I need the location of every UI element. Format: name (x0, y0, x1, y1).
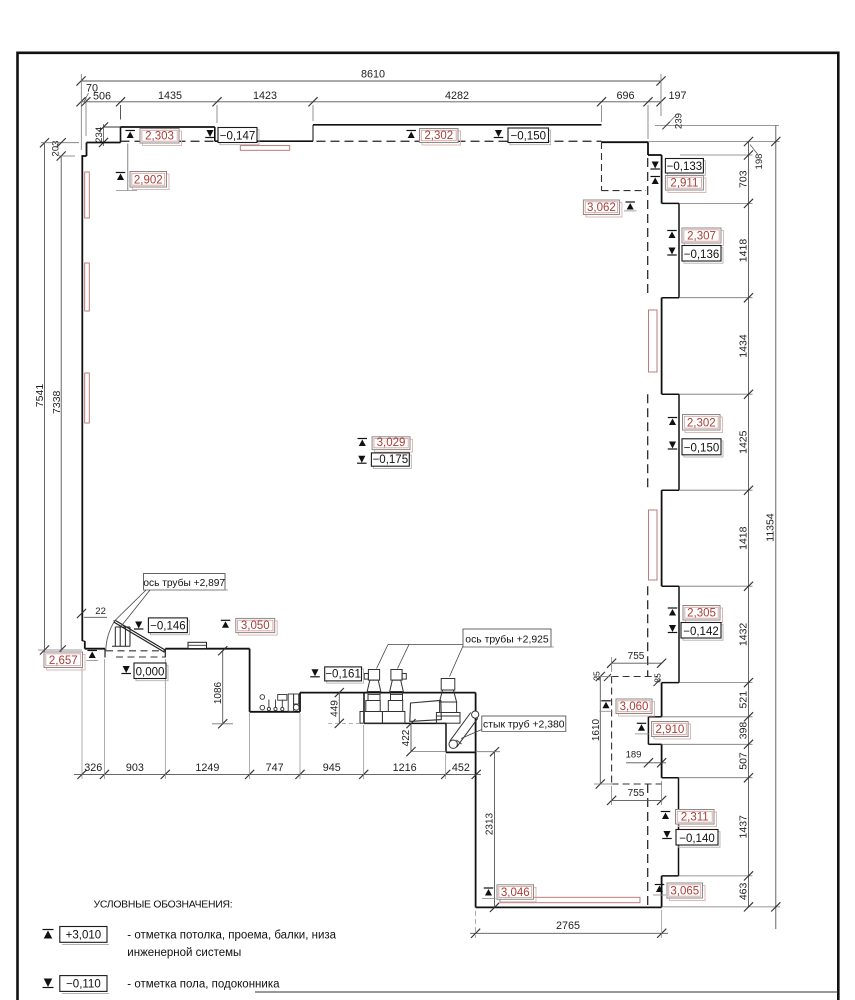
wall step down at x250 (249, 649, 251, 712)
svg-text:1432: 1432 (737, 623, 749, 647)
elevation mark 2,911 (650, 176, 660, 178)
svg-text:1216: 1216 (393, 762, 417, 774)
platform step at x446 (445, 723, 447, 752)
svg-text:197: 197 (668, 90, 686, 102)
label leader ось трубы +2,925 (388, 644, 463, 646)
wall shelf y712 (250, 711, 300, 713)
radiator left wall 3 (85, 373, 90, 423)
dimension 7338 vertical line (60, 156, 62, 653)
svg-text:7338: 7338 (51, 390, 63, 414)
svg-text:−0,110: −0,110 (66, 979, 101, 991)
elevation mark 2,302 top (406, 130, 416, 132)
svg-text:945: 945 (323, 762, 341, 774)
elevation mark -0,175 center (358, 456, 365, 463)
svg-text:УСЛОВНЫЕ ОБОЗНАЧЕНИЯ:: УСЛОВНЫЕ ОБОЗНАЧЕНИЯ: (94, 900, 233, 911)
fixture lollipop valves (268, 700, 270, 708)
svg-text:506: 506 (93, 91, 111, 103)
svg-text:0,000: 0,000 (136, 666, 165, 678)
left wall bottom step (82, 640, 85, 642)
bay left wall (475, 693, 477, 908)
svg-text:755: 755 (628, 788, 645, 799)
dimension 22 tick and text (77, 609, 86, 618)
elevation mark 3,029 center (358, 438, 368, 440)
svg-text:−0,142: −0,142 (683, 626, 719, 638)
window R2 bottom jamb (662, 489, 679, 491)
door opening dashed inner (116, 656, 165, 658)
dimension 755 top (612, 662, 662, 664)
svg-text:инженерной системы: инженерной системы (127, 947, 241, 959)
svg-text:1437: 1437 (737, 815, 749, 839)
svg-text:521: 521 (737, 691, 749, 709)
elevation mark -0,161 (311, 669, 318, 676)
elevation mark -0,133 (652, 162, 659, 169)
dimension 2313 (494, 751, 496, 908)
svg-text:ось трубы +2,897: ось трубы +2,897 (143, 577, 225, 589)
label box ось трубы +2,897 (144, 574, 226, 591)
elevation mark -0,147 (206, 130, 213, 137)
bottom dimension chain line (74, 773, 481, 775)
radiator right wall lower (649, 510, 658, 580)
svg-text:2765: 2765 (556, 920, 580, 932)
svg-text:463: 463 (737, 882, 749, 900)
elevation mark 2,902 (127, 144, 129, 191)
svg-text:−0,146: −0,146 (150, 620, 186, 632)
svg-text:2,302: 2,302 (687, 418, 716, 430)
svg-text:507: 507 (737, 752, 749, 770)
svg-text:2,305: 2,305 (687, 608, 716, 620)
svg-text:422: 422 (401, 729, 412, 746)
dimension 1610 (599, 677, 601, 785)
elevation mark 3,065 (655, 884, 665, 886)
radiator left wall 2 (85, 263, 90, 311)
right wall segment 1418b (661, 490, 663, 586)
bottom chain extension lines (81, 652, 83, 779)
svg-text:4282: 4282 (445, 90, 469, 102)
svg-text:стык труб +2,380: стык труб +2,380 (483, 719, 565, 731)
elevation mark -0,136 (668, 248, 675, 255)
window R1 top jamb (662, 202, 679, 204)
svg-text:755: 755 (628, 651, 645, 662)
elevation mark 3,062 (586, 203, 622, 218)
elevation mark 2,302 right (668, 417, 678, 419)
elevation mark 3,050 (221, 619, 231, 621)
door swing arc (106, 621, 115, 651)
svg-text:1434: 1434 (737, 334, 749, 358)
legend floor mark symbol (44, 979, 53, 988)
svg-text:−0,150: −0,150 (684, 443, 720, 455)
svg-text:1249: 1249 (195, 762, 219, 774)
wall segment 1423 face (215, 140, 313, 142)
bottom wall right of door (165, 648, 249, 650)
window W1 left jamb (120, 127, 122, 143)
label box стык труб +2,380 (461, 730, 482, 739)
window R2 outer face (678, 394, 680, 490)
svg-text:+3,010: +3,010 (66, 930, 102, 942)
niche 398 bottom jamb (648, 743, 661, 745)
right wall segment 507 (661, 744, 663, 777)
window R1 outer face (678, 203, 680, 297)
radiator under top wall (240, 146, 289, 151)
svg-text:903: 903 (126, 762, 144, 774)
window R2 top jamb (662, 393, 679, 395)
svg-text:85: 85 (653, 673, 663, 683)
svg-text:2,657: 2,657 (49, 655, 78, 667)
right wall axis dashed (647, 158, 649, 298)
legend ceiling mark symbol (43, 929, 54, 931)
dashed inner corner top-right (601, 142, 603, 191)
svg-text:449: 449 (329, 700, 340, 717)
pipe riser 1 (368, 670, 379, 681)
svg-text:1423: 1423 (253, 90, 277, 102)
wall top-left niche thin line (104, 126, 121, 128)
elevation mark 2,311 (661, 811, 671, 813)
label box ось трубы +2,925 (463, 629, 551, 647)
svg-text:2,307: 2,307 (687, 231, 716, 243)
svg-text:1435: 1435 (158, 90, 182, 102)
svg-text:2,910: 2,910 (655, 724, 684, 736)
radiator bay bottom (500, 897, 640, 902)
platform line y752 (446, 751, 476, 753)
svg-text:7541: 7541 (34, 384, 46, 408)
svg-text:−0,147: −0,147 (220, 130, 256, 142)
svg-text:3,065: 3,065 (670, 886, 699, 898)
svg-text:3,029: 3,029 (377, 437, 406, 449)
elevation mark -0,140 (663, 831, 670, 838)
wall segment 696 (602, 141, 649, 143)
svg-text:3,046: 3,046 (501, 887, 530, 899)
window R1 bottom jamb (662, 297, 679, 299)
svg-text:- отметка пола, подоконника: - отметка пола, подоконника (127, 979, 280, 991)
svg-text:2,303: 2,303 (145, 131, 174, 143)
entrance steps (115, 626, 130, 628)
svg-text:696: 696 (616, 90, 634, 102)
elevation mark 2,305 (668, 607, 678, 609)
elevation mark 2,910 (637, 722, 647, 724)
svg-text:−0,136: −0,136 (684, 249, 720, 261)
svg-text:1418: 1418 (737, 526, 749, 550)
bay bottom wall (476, 906, 662, 908)
right wall segment 1434 (661, 298, 663, 395)
door opening dashed outer (106, 650, 165, 652)
window R3 top jamb (662, 585, 679, 587)
top-right corner step (647, 142, 649, 155)
niche 398 top jamb (648, 716, 661, 718)
dimension 1086 (222, 651, 224, 724)
legend box +3,010 (60, 927, 107, 943)
svg-text:3,060: 3,060 (620, 701, 649, 713)
svg-text:−0,140: −0,140 (679, 833, 715, 845)
dimension overall 8610 line (81, 80, 661, 82)
elevation mark 2,303 (125, 130, 135, 132)
svg-text:−0,161: −0,161 (325, 669, 361, 681)
svg-text:ось трубы +2,925: ось трубы +2,925 (465, 633, 549, 645)
svg-text:−0,133: −0,133 (667, 161, 703, 173)
dashed projection box bay (611, 677, 613, 785)
pipe riser 2 (391, 670, 402, 681)
radiator left wall 1 (85, 172, 90, 218)
svg-text:189: 189 (626, 750, 642, 761)
svg-text:2,902: 2,902 (134, 175, 163, 187)
svg-text:239: 239 (674, 113, 685, 129)
svg-text:2,302: 2,302 (424, 130, 453, 142)
bath rectangle fixture (410, 700, 442, 721)
window R4 bottom jamb (662, 875, 679, 877)
svg-text:8610: 8610 (361, 69, 385, 81)
fixture small circle pair (260, 695, 265, 700)
dimension 11354 line (775, 126, 777, 930)
elevation mark -0,150 right (669, 442, 676, 449)
bottom wall left of door (85, 648, 105, 650)
svg-text:398: 398 (737, 722, 749, 740)
svg-text:2,311: 2,311 (681, 812, 709, 824)
svg-text:−0,150: −0,150 (511, 130, 547, 142)
svg-text:- отметка потолка, проема, бал: - отметка потолка, проема, балки, низа (127, 930, 336, 942)
dimension 422 (410, 724, 412, 752)
svg-text:22: 22 (95, 606, 106, 617)
svg-text:−0,175: −0,175 (373, 454, 409, 466)
left wall (81, 156, 83, 641)
svg-text:11354: 11354 (765, 513, 777, 542)
elevation mark 0,000 (123, 666, 130, 673)
svg-text:3,062: 3,062 (587, 202, 616, 214)
niche 398 inner face (647, 717, 649, 745)
window R3 outer face (678, 586, 680, 682)
svg-text:2313: 2313 (485, 812, 496, 835)
platform step at x364 (363, 693, 365, 724)
elevation mark -0,150 top (495, 130, 502, 137)
elevation mark -0,142 (669, 625, 676, 632)
fixture small box (278, 695, 287, 701)
door opening right jamb (164, 649, 166, 658)
wall step up at x300 (299, 693, 301, 712)
window R4 top jamb (662, 777, 679, 779)
svg-text:234: 234 (94, 127, 105, 143)
window W1 1435 head line (121, 126, 215, 128)
window R3 bottom jamb (662, 682, 679, 684)
pipe riser 3 (441, 679, 455, 691)
svg-text:703: 703 (737, 170, 749, 188)
dimension 7541 vertical line (44, 143, 46, 653)
legend box -0,110 (60, 976, 107, 992)
opening 4282 beam line (313, 124, 602, 126)
elevation mark 2,307 (667, 230, 677, 232)
window R4 outer face (678, 778, 680, 876)
opening 4282 left step (312, 125, 314, 141)
right wall segment above window 1 (661, 155, 663, 203)
extension lines top dims (80, 74, 82, 150)
dimension 234 line and ticks (103, 124, 105, 146)
door leaf (115, 620, 166, 650)
svg-text:2,911: 2,911 (670, 178, 698, 190)
window W1 right jamb (214, 127, 216, 141)
dimension chain line top (506/1435/1423/4282/696/197) (81, 101, 661, 103)
svg-text:1610: 1610 (591, 718, 602, 741)
threshold block on bottom wall (188, 642, 207, 648)
sloped pipe стык труб (472, 711, 479, 718)
dimension 2765 (470, 932, 668, 934)
inner bottom rule (255, 991, 838, 993)
svg-text:3,050: 3,050 (241, 620, 270, 632)
platform line y723 (364, 722, 446, 724)
svg-text:326: 326 (84, 762, 102, 774)
elevation mark -0,146 (135, 622, 142, 629)
svg-text:1425: 1425 (737, 430, 749, 454)
right wall segment 521 (661, 683, 663, 717)
dimension 755 bottom (612, 799, 662, 801)
svg-text:452: 452 (452, 762, 470, 774)
elevation mark 3,060 (601, 700, 611, 702)
svg-text:747: 747 (266, 762, 284, 774)
elevation mark 2,657 (47, 655, 86, 671)
dimension 449 (338, 693, 340, 724)
door opening left jamb (104, 649, 106, 658)
fixture cabinet with circle (288, 694, 293, 712)
right dimension chain line (748, 142, 750, 907)
svg-text:1086: 1086 (213, 681, 224, 704)
elevation mark 3,046 (484, 887, 494, 889)
svg-text:1418: 1418 (737, 239, 749, 263)
svg-text:198: 198 (754, 154, 765, 170)
right chain extension lines (655, 125, 779, 127)
radiator right wall upper (649, 310, 658, 372)
right wall segment 463 (661, 876, 663, 908)
wall top-left corner step (86, 143, 88, 157)
top wall axis dashed line (121, 140, 602, 142)
wall face y692 (300, 692, 476, 694)
wall top-left segment (87, 142, 121, 144)
extension lines left dims (41, 142, 79, 144)
